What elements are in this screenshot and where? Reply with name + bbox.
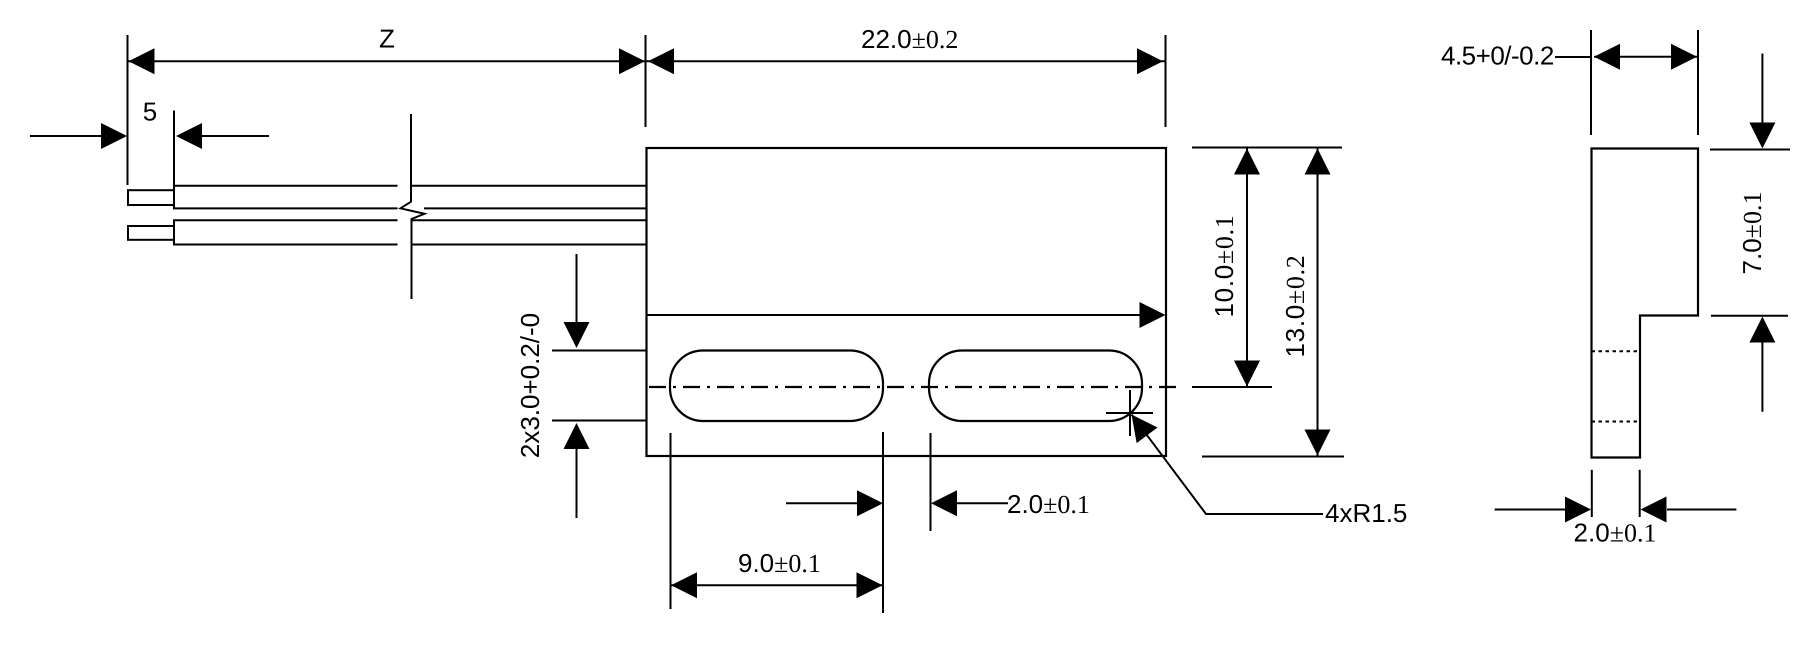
radius target cross <box>1106 390 1153 436</box>
wire 1 insulation <box>174 186 646 209</box>
hidden slot line lower <box>1592 421 1640 423</box>
svg-text:22.0±0.2: 22.0±0.2 <box>861 24 958 54</box>
dimension 22.0±0.2 <box>646 35 1166 127</box>
dimension 2x3.0+0.2/-0 slot height <box>552 254 646 518</box>
wire 2 insulation <box>174 220 646 244</box>
svg-text:4.5+0/-0.2: 4.5+0/-0.2 <box>1441 41 1554 71</box>
svg-text:2.0±0.1: 2.0±0.1 <box>1007 489 1090 519</box>
wire break mark <box>401 114 425 299</box>
side view profile <box>1592 149 1699 458</box>
slot 2 obround hole <box>929 351 1142 422</box>
body front view outline <box>647 148 1167 456</box>
dimension 13.0±0.2 <box>1202 148 1344 457</box>
dimension 2.0±0.1 side view <box>1495 470 1737 523</box>
svg-text:10.0±0.1: 10.0±0.1 <box>1209 215 1239 318</box>
svg-text:7.0±0.1: 7.0±0.1 <box>1737 192 1767 275</box>
wire 1 bare lead tip <box>128 190 174 205</box>
svg-text:2x3.0+0.2/-0: 2x3.0+0.2/-0 <box>515 313 545 458</box>
hidden slot line upper <box>1592 350 1640 352</box>
svg-text:2.0±0.1: 2.0±0.1 <box>1574 518 1657 548</box>
svg-text:4xR1.5: 4xR1.5 <box>1325 498 1407 528</box>
wire 2 bare lead tip <box>128 226 174 240</box>
dimension 9.0±0.1 slot length <box>671 432 884 613</box>
dimension 2.0±0.1 slot gap <box>786 433 1008 531</box>
dimension 4.5+0/-0.2 <box>1555 30 1698 135</box>
leader 4xR1.5 <box>1121 407 1323 514</box>
dimension Z <box>128 35 646 185</box>
svg-text:5: 5 <box>143 97 157 127</box>
centerline through slots <box>649 386 1177 388</box>
dimension 7.0±0.1 <box>1710 54 1790 412</box>
sensing level arrow inside body <box>647 302 1166 328</box>
dimension 5 (bare lead length) <box>30 111 269 186</box>
slot 1 obround hole <box>670 351 883 422</box>
svg-text:Z: Z <box>379 24 395 54</box>
dimension 10.0±0.1 <box>1192 148 1342 388</box>
svg-text:13.0±0.2: 13.0±0.2 <box>1280 255 1310 358</box>
svg-text:9.0±0.1: 9.0±0.1 <box>738 548 821 578</box>
